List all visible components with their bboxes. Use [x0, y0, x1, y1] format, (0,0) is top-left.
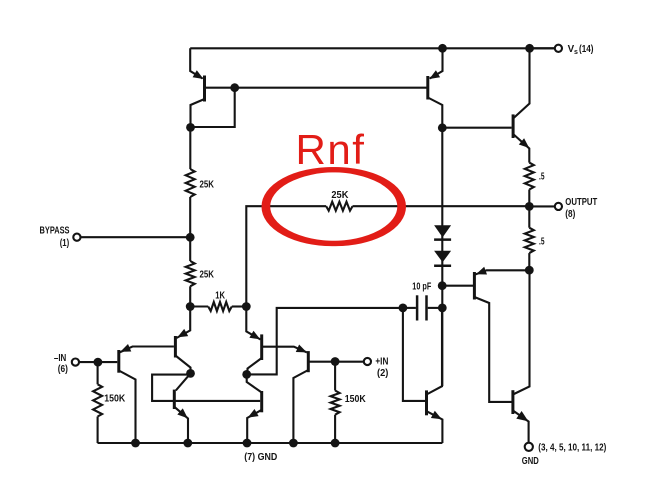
wire output to R8: [528, 206, 530, 227]
svg-text:.5: .5: [539, 237, 545, 248]
resistor R3 1K: [190, 302, 246, 311]
node Q6 emitter on rail: [183, 439, 192, 448]
wire R6 to rail: [334, 415, 336, 443]
svg-text:10 pF: 10 pF: [412, 282, 431, 293]
node Q7 emitter on rail: [243, 439, 252, 448]
wire Vs stub: [532, 47, 555, 49]
node Q1 base junction: [230, 83, 239, 92]
wire base line Q1-Q2: [206, 87, 427, 89]
svg-text:Rnf: Rnf: [296, 126, 366, 173]
wire -IN node down: [97, 362, 99, 384]
node bypass junction: [186, 233, 195, 242]
node D Q11 emitter junction: [525, 266, 534, 275]
transistor Q8 (right gain PNP): [246, 307, 307, 375]
node Q4 collector on rail: [131, 439, 140, 448]
wire R7 to output node: [528, 190, 530, 207]
svg-text:25K: 25K: [331, 190, 348, 201]
svg-text:–IN: –IN: [54, 353, 66, 364]
node C mirror output junction: [242, 370, 251, 379]
node Q2 emitter on rail: [438, 44, 447, 53]
wire top supply rail: [190, 47, 555, 49]
node A left 1K node: [186, 302, 195, 311]
wire output pin stub: [529, 205, 555, 207]
resistor R1 25K: [186, 169, 195, 197]
svg-text:25K: 25K: [200, 270, 215, 281]
svg-text:(14): (14): [579, 44, 594, 55]
transistor Q2 (top-middle PNP mirror): [428, 48, 443, 128]
node Q2 collector / Q3 base: [438, 123, 447, 132]
wire BYPASS pin: [81, 236, 190, 238]
node B right 1K node: [242, 302, 251, 311]
resistor R4 25K feedback: [326, 202, 352, 211]
pin GND (3,4,5,10,11,12): [525, 443, 533, 451]
node R6 on rail: [331, 439, 340, 448]
pin -IN (6): [72, 359, 79, 366]
node 10pF right junction: [438, 304, 447, 313]
resistor R8 0.5: [525, 228, 534, 253]
transistor Q4 (-IN input PNP): [119, 344, 174, 443]
transistor Q7 (NPN mirror output): [247, 374, 262, 443]
node OUTPUT junction: [525, 202, 534, 211]
wire ground rail: [98, 442, 443, 444]
node Q1 collector junction: [186, 123, 195, 132]
pin Vs (14): [555, 45, 562, 52]
svg-text:OUTPUT: OUTPUT: [565, 197, 597, 208]
svg-text:25K: 25K: [200, 180, 215, 191]
svg-text:s: s: [574, 49, 578, 56]
svg-text:(3, 4, 5, 10, 11, 12): (3, 4, 5, 10, 11, 12): [538, 442, 606, 453]
node -IN junction: [94, 358, 103, 367]
node Q5 collector junction: [186, 369, 195, 378]
transistor Q10 (second stage NPN): [403, 308, 443, 443]
resistor R5 150K: [93, 384, 102, 416]
svg-text:(6): (6): [58, 364, 68, 375]
svg-text:1K: 1K: [215, 291, 225, 302]
wire main right vertical: [441, 128, 443, 386]
diode D2: [434, 251, 451, 266]
svg-text:(8): (8): [565, 209, 575, 220]
wire R8 to node D: [528, 253, 530, 270]
wire R1 to bypass node: [189, 197, 191, 261]
pin OUTPUT (8): [555, 203, 562, 210]
transistor Q12 (output NPN): [513, 270, 530, 443]
transistor Q1 (top-left PNP, diode connected): [190, 48, 204, 128]
svg-text:BYPASS: BYPASS: [40, 226, 70, 237]
transistor Q5 (left gain PNP): [175, 307, 190, 374]
svg-text:.5: .5: [539, 172, 545, 183]
annotation red ellipse around R4: [264, 170, 400, 244]
wire R2 to node A: [189, 286, 191, 306]
node +IN junction: [331, 357, 340, 366]
svg-text:(1): (1): [60, 238, 69, 249]
transistor Q6 (diode NPN mirror): [152, 373, 260, 443]
wire R5 to rail: [97, 417, 99, 444]
wire to R1: [189, 127, 191, 169]
pin BYPASS (1): [73, 234, 80, 241]
node Q9 collector on rail: [289, 439, 298, 448]
node Vs junction: [525, 44, 534, 53]
wire feedback to output: [353, 205, 530, 207]
pin +IN (2): [364, 358, 371, 365]
wire diode-connect loop Q1: [191, 88, 235, 127]
transistor Q11 (output driver PNP): [442, 267, 529, 402]
wire -IN: [79, 361, 117, 363]
diode D1: [434, 225, 451, 239]
node 10pF left junction: [399, 304, 408, 313]
annotation red ellipse second stroke: [268, 170, 404, 244]
node Q11 base tap: [438, 281, 447, 290]
svg-text:(2): (2): [377, 368, 388, 379]
transistor Q3 (upper output NPN): [442, 48, 529, 162]
wire second stage input: [247, 308, 403, 375]
wire +IN node down: [334, 362, 336, 391]
resistor R6 150K: [331, 391, 340, 415]
wire feedback riser: [246, 206, 326, 306]
svg-text:+IN: +IN: [375, 357, 388, 368]
svg-text:150K: 150K: [104, 394, 125, 405]
resistor R2 25K: [186, 261, 195, 286]
resistor R7 0.5: [525, 163, 534, 190]
svg-text:(7) GND: (7) GND: [244, 452, 277, 463]
capacitor C1 10pF: [403, 295, 442, 320]
svg-text:GND: GND: [522, 456, 539, 467]
svg-text:150K: 150K: [345, 394, 366, 405]
transistor Q9 (+IN input PNP): [293, 345, 364, 444]
